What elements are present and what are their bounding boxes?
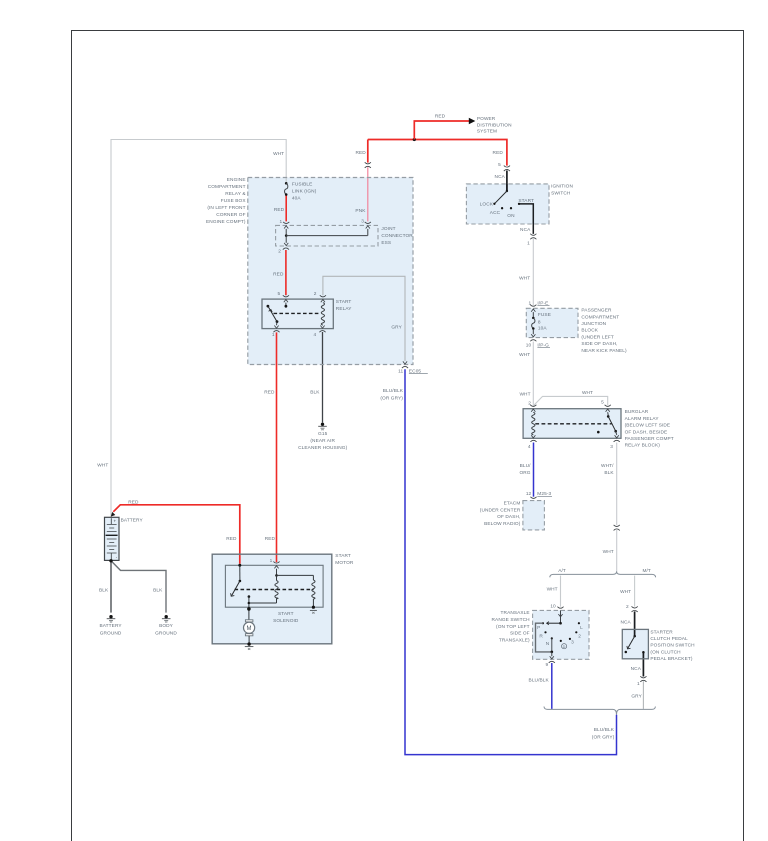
svg-text:FUSIBLE: FUSIBLE	[292, 181, 313, 187]
transaxle range switch box fill	[533, 610, 589, 659]
start relay pin 5	[278, 291, 289, 308]
svg-text:ENGINE COMPT): ENGINE COMPT)	[206, 219, 246, 225]
wire WHT/BLK burglar relay pin 3 down	[601, 443, 617, 526]
svg-text:FUSE BOX: FUSE BOX	[221, 198, 247, 204]
svg-text:2: 2	[278, 248, 281, 254]
motor M	[244, 604, 255, 643]
ETACM box fill	[523, 501, 545, 530]
node main bus junction	[413, 138, 416, 141]
start motor box	[212, 553, 354, 644]
svg-text:WHT: WHT	[582, 390, 593, 396]
clutch switch blade and contacts	[625, 635, 645, 654]
svg-text:GRY: GRY	[631, 694, 642, 700]
svg-text:(UNDER CENTER: (UNDER CENTER	[480, 508, 521, 514]
svg-text:10A: 10A	[538, 326, 547, 332]
svg-text:D: D	[563, 645, 566, 649]
svg-text:POSITION SWITCH: POSITION SWITCH	[650, 643, 695, 649]
solenoid pin 1 connector	[270, 558, 280, 574]
svg-text:5: 5	[278, 291, 281, 297]
svg-text:RELAY &: RELAY &	[225, 191, 246, 197]
wire NCA ignition START to connector 1	[519, 204, 533, 234]
svg-text:1: 1	[637, 681, 640, 687]
wire GRY start relay pin 2 to EC05	[323, 276, 405, 361]
burglar alarm relay box	[523, 409, 674, 449]
svg-text:RELAY: RELAY	[336, 306, 352, 312]
svg-text:RED: RED	[355, 150, 366, 156]
svg-text:GRY: GRY	[391, 324, 402, 330]
svg-text:2: 2	[528, 401, 531, 407]
junction block pin 1 I/P-E	[528, 300, 549, 306]
svg-text:(OR GRY): (OR GRY)	[380, 395, 403, 401]
svg-text:4: 4	[528, 444, 531, 450]
svg-text:L: L	[580, 625, 583, 631]
svg-text:RED: RED	[493, 150, 504, 156]
svg-text:1: 1	[272, 332, 275, 338]
svg-text:WHT: WHT	[547, 586, 558, 592]
svg-text:COMPARTMENT: COMPARTMENT	[581, 314, 619, 320]
starter clutch pedal position switch box	[622, 629, 695, 662]
svg-text:BODY: BODY	[159, 623, 174, 629]
solenoid contact to coil	[248, 595, 277, 604]
start solenoid box	[225, 565, 323, 624]
ETACM box	[480, 501, 545, 530]
svg-text:+: +	[114, 518, 117, 523]
wire RED battery to start solenoid	[113, 500, 240, 564]
burglar relay coil pin 2 to pin 4	[528, 409, 537, 450]
start relay box	[262, 299, 352, 329]
brace merge BLU/BLK or GRY	[544, 707, 655, 741]
connector inline RED/PNK	[365, 162, 371, 168]
svg-text:BLK: BLK	[99, 588, 109, 594]
svg-text:WHT: WHT	[519, 392, 530, 398]
solenoid pull-in coil	[277, 575, 316, 606]
transaxle contacts P R N D 3 2 L	[537, 622, 583, 647]
wire WHT battery to fusible link (loop)	[97, 140, 286, 517]
ignition switch contacts	[480, 198, 534, 219]
wire RED joint connector pin 2 to start relay pin 5	[273, 250, 286, 295]
svg-text:DISTRIBUTION: DISTRIBUTION	[477, 122, 512, 128]
fuse 8 10A	[531, 309, 551, 337]
svg-text:(BELOW LEFT SIDE: (BELOW LEFT SIDE	[625, 423, 671, 429]
svg-text:1: 1	[270, 558, 273, 564]
battery	[105, 517, 144, 560]
svg-text:G15: G15	[318, 431, 328, 437]
svg-text:ENGINE: ENGINE	[227, 177, 246, 183]
wire WHT junction block to burglar alarm relay	[519, 342, 533, 405]
svg-text:NCA: NCA	[620, 620, 631, 626]
svg-text:FUSE: FUSE	[538, 312, 551, 318]
svg-text:BATTERY: BATTERY	[121, 517, 144, 523]
wire BLK battery to battery ground	[99, 561, 111, 613]
svg-text:9: 9	[545, 662, 548, 668]
svg-text:PEDAL BRACKET): PEDAL BRACKET)	[650, 656, 692, 662]
start relay mechanical link dashed	[274, 312, 320, 314]
joint connector pin 3	[361, 218, 371, 235]
svg-text:5: 5	[498, 162, 501, 168]
wire BLK battery to body ground	[111, 561, 166, 613]
svg-text:STARTER: STARTER	[650, 629, 673, 635]
transaxle pin 9	[545, 652, 554, 668]
svg-text:3: 3	[610, 444, 613, 450]
passenger compartment junction block box	[526, 308, 627, 354]
transaxle selector arm	[547, 622, 562, 625]
svg-text:START: START	[336, 299, 352, 305]
svg-text:GROUND: GROUND	[100, 630, 122, 636]
start motor box fill	[212, 554, 332, 644]
svg-text:A/T: A/T	[558, 568, 566, 574]
svg-text:GROUND: GROUND	[155, 630, 177, 636]
svg-text:PASSENGER: PASSENGER	[581, 308, 612, 314]
svg-text:COMPARTMENT: COMPARTMENT	[208, 184, 246, 190]
svg-text:RANGE SWITCH: RANGE SWITCH	[492, 617, 531, 623]
svg-text:NCA: NCA	[495, 174, 506, 180]
svg-text:M/T: M/T	[642, 568, 650, 574]
svg-text:(OR GRY): (OR GRY)	[592, 734, 615, 740]
starter clutch pedal position switch box fill	[622, 629, 648, 658]
wire WHT branch to burglar relay pin 5	[533, 390, 607, 406]
svg-text:IGNITION: IGNITION	[551, 183, 573, 189]
svg-text:WHT: WHT	[620, 589, 631, 595]
solenoid coil ground	[310, 606, 317, 614]
burglar relay pin 3	[610, 431, 620, 450]
start relay coil pin 2 to pin 4	[314, 291, 326, 338]
burglar relay pin 2	[528, 401, 536, 407]
wire PNK to joint connector pin 3	[355, 167, 367, 221]
svg-text:BLU/BLK: BLU/BLK	[383, 388, 404, 394]
junction block pin 10 I/P-G	[526, 340, 550, 349]
wire BLK start relay pin 4 to ground G15	[310, 332, 322, 423]
svg-text:NCA: NCA	[520, 227, 531, 233]
ignition switch box fill	[466, 184, 549, 224]
wire BLU return to EC05	[380, 369, 616, 754]
svg-text:P: P	[537, 625, 540, 631]
svg-text:BLK: BLK	[604, 470, 614, 476]
svg-text:R: R	[539, 634, 543, 640]
svg-text:2: 2	[314, 291, 317, 297]
connector EC05 pin 11	[398, 361, 428, 374]
transaxle pin 10	[550, 604, 563, 623]
wire RED fusible link to joint connector pin 1	[274, 195, 286, 222]
motor ground	[245, 642, 254, 649]
start relay pin 1	[272, 322, 280, 338]
svg-text:BURGLAR: BURGLAR	[625, 409, 649, 415]
svg-text:RED: RED	[274, 207, 285, 213]
svg-text:JUNCTION: JUNCTION	[581, 321, 606, 327]
svg-text:(IN LEFT FRONT: (IN LEFT FRONT	[207, 205, 245, 211]
wire NCA ignition connector to switch	[495, 171, 507, 192]
svg-text:RED: RED	[128, 500, 139, 506]
svg-text:OF DASH, BESIDE: OF DASH, BESIDE	[625, 429, 668, 435]
svg-text:(ON CLUTCH: (ON CLUTCH	[650, 649, 681, 655]
svg-text:PNK: PNK	[355, 208, 366, 214]
svg-text:WHT: WHT	[603, 549, 614, 555]
wire GRY clutch connector to brace	[631, 681, 643, 709]
joint connector ESS box	[276, 225, 414, 246]
svg-text:TRANSAXLE: TRANSAXLE	[501, 610, 530, 616]
svg-text:START: START	[518, 198, 534, 204]
wire WHT A/T branch to transaxle switch	[547, 576, 561, 607]
svg-text:8: 8	[538, 319, 541, 325]
svg-text:SIDE OF DASH,: SIDE OF DASH,	[581, 341, 617, 347]
connector inline ignition pin 1	[527, 234, 536, 247]
ETACM pin 12 M25-3	[526, 491, 552, 498]
svg-text:RED: RED	[265, 536, 276, 542]
svg-text:BLU/BLK: BLU/BLK	[594, 727, 615, 733]
svg-text:BLK: BLK	[310, 390, 320, 396]
transaxle P to pin 9 path	[536, 623, 554, 653]
label power distribution system	[477, 116, 512, 135]
svg-text:BLU/: BLU/	[520, 463, 532, 469]
svg-text:LOCK: LOCK	[480, 202, 494, 208]
svg-text:ALARM RELAY: ALARM RELAY	[625, 416, 660, 422]
passenger compartment junction block fill	[526, 308, 578, 337]
svg-text:CORNER OF: CORNER OF	[216, 212, 245, 218]
svg-text:(NEAR AIR: (NEAR AIR	[310, 438, 335, 444]
svg-text:2: 2	[626, 604, 629, 610]
svg-text:ORG: ORG	[519, 470, 530, 476]
wire WHT ignition to junction block	[519, 239, 533, 305]
ground G15	[298, 423, 347, 452]
svg-text:5: 5	[601, 399, 604, 405]
svg-text:SOLENOID: SOLENOID	[273, 618, 299, 624]
solenoid hold-in coil	[275, 574, 278, 599]
svg-text:RED: RED	[435, 114, 446, 120]
svg-text:1: 1	[528, 300, 531, 306]
wire RED start relay pin 1 to start solenoid	[264, 332, 276, 562]
svg-text:NCA: NCA	[631, 666, 642, 672]
connector inline clutch pin 1	[637, 676, 647, 687]
svg-text:TRANSAXLE): TRANSAXLE)	[499, 637, 530, 643]
brace A/T M/T split	[550, 568, 656, 577]
engine compartment relay & fuse box fill	[248, 178, 413, 365]
svg-text:EC05: EC05	[409, 368, 422, 374]
engine compartment relay & fuse box	[206, 177, 413, 365]
svg-text:3: 3	[361, 218, 364, 224]
svg-text:BLK: BLK	[153, 588, 163, 594]
svg-text:LINK (IGN): LINK (IGN)	[292, 188, 317, 194]
svg-text:RELAY BLOCK): RELAY BLOCK)	[625, 443, 661, 449]
battery box fill	[105, 517, 120, 560]
ignition switch box	[466, 183, 573, 224]
svg-text:10: 10	[550, 604, 556, 610]
svg-text:RED: RED	[264, 390, 275, 396]
svg-text:START: START	[335, 553, 351, 559]
svg-text:BLU/BLK: BLU/BLK	[529, 678, 550, 684]
svg-text:BLOCK: BLOCK	[581, 328, 598, 334]
svg-text:WHT/: WHT/	[601, 463, 614, 469]
svg-text:M: M	[247, 626, 252, 632]
svg-text:(ON TOP LEFT: (ON TOP LEFT	[496, 624, 530, 630]
wire NCA to clutch switch	[620, 611, 634, 635]
ignition switch blade	[495, 184, 508, 203]
svg-text:CLEANER HOUSING): CLEANER HOUSING)	[298, 445, 347, 451]
svg-text:ACC: ACC	[490, 210, 501, 216]
svg-text:ETACM: ETACM	[504, 501, 521, 507]
solenoid mechanical link dashed	[235, 589, 314, 591]
svg-text:CLUTCH PEDAL: CLUTCH PEDAL	[650, 636, 688, 642]
svg-text:SIDE OF: SIDE OF	[510, 631, 530, 637]
svg-text:SYSTEM: SYSTEM	[477, 129, 497, 135]
burglar alarm relay box fill	[523, 409, 621, 439]
svg-text:JOINT: JOINT	[381, 226, 395, 232]
svg-text:11: 11	[398, 368, 403, 374]
svg-text:NEAR KICK PANEL): NEAR KICK PANEL)	[581, 348, 627, 354]
svg-text:OF DASH,: OF DASH,	[497, 514, 520, 520]
svg-text:PASSENGER COMPT: PASSENGER COMPT	[625, 436, 674, 442]
transaxle circled D	[562, 644, 567, 649]
wire RED branch to power distribution system	[414, 114, 475, 140]
connector inline M/T pin 2	[626, 604, 638, 612]
solenoid switch	[231, 564, 242, 597]
burglar relay mechanical link dashed	[535, 423, 611, 425]
wire NCA clutch switch to connector 1	[631, 653, 644, 677]
burglar relay switch blade	[597, 409, 617, 433]
svg-text:RED: RED	[273, 272, 284, 278]
svg-text:RED: RED	[226, 536, 237, 542]
connector inline ignition pin 5	[498, 162, 510, 171]
joint connector internal bus	[285, 234, 368, 237]
svg-text:ESS: ESS	[381, 240, 391, 246]
svg-text:CONNECTOR: CONNECTOR	[381, 233, 413, 239]
svg-text:ON: ON	[507, 213, 515, 219]
joint connector pin 1	[279, 219, 289, 235]
fusible link IGN 40A	[285, 181, 317, 201]
svg-text:WHT: WHT	[273, 151, 284, 157]
svg-text:1: 1	[279, 219, 282, 225]
svg-text:POWER: POWER	[477, 116, 496, 122]
connector inline WHT/BLK	[614, 525, 620, 531]
joint connector pin 2	[278, 236, 289, 255]
svg-text:10: 10	[526, 342, 532, 348]
svg-text:12: 12	[526, 491, 532, 497]
svg-text:MOTOR: MOTOR	[335, 560, 354, 566]
svg-text:WHT: WHT	[519, 276, 530, 282]
transaxle range switch box	[492, 610, 589, 659]
battery ground	[100, 615, 123, 636]
body ground	[155, 615, 177, 636]
svg-text:2: 2	[578, 634, 581, 640]
svg-text:WHT: WHT	[97, 462, 108, 468]
svg-text:1: 1	[527, 241, 530, 247]
start relay switch blade	[267, 305, 279, 323]
svg-text:40A: 40A	[292, 195, 301, 201]
svg-text:4: 4	[314, 332, 317, 338]
svg-text:3: 3	[571, 639, 574, 645]
wire WHT M/T branch	[620, 576, 635, 607]
arrow into battery positive	[111, 512, 116, 517]
node battery negative	[109, 559, 112, 562]
svg-text:WHT: WHT	[519, 352, 530, 358]
wire BLU/BLK transaxle pin 9 to brace	[529, 663, 552, 709]
wire RED main bus to ignition switch	[368, 140, 507, 166]
svg-text:SWITCH: SWITCH	[551, 191, 571, 197]
start relay box fill	[262, 299, 333, 329]
svg-text:BATTERY: BATTERY	[100, 623, 123, 629]
burglar relay pin 5	[601, 399, 611, 406]
wire BLU/ORG burglar relay pin 4 to ETACM	[519, 443, 533, 497]
wire WHT to A/T M/T brace	[603, 530, 617, 571]
svg-text:(UNDER LEFT: (UNDER LEFT	[581, 334, 614, 340]
svg-text:START: START	[278, 611, 294, 617]
svg-text:BELOW RADIO): BELOW RADIO)	[484, 521, 521, 527]
svg-text:N: N	[546, 641, 550, 647]
wire RED drop to engine box	[355, 140, 367, 163]
